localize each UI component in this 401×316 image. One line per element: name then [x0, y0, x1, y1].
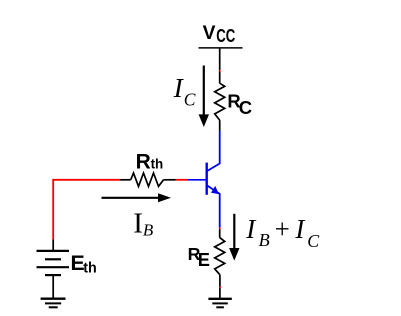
transistor Q1 collector lead [207, 130, 220, 171]
ground battery [41, 299, 66, 308]
wire battery to ground [52, 275, 54, 299]
current arrow IB plus IC [229, 214, 239, 261]
svg-text:R: R [136, 150, 151, 173]
wire battery top [52, 240, 54, 251]
transistor Q1 base bar [205, 163, 207, 195]
svg-text:+: + [273, 214, 291, 244]
svg-text:C: C [307, 231, 320, 251]
svg-text:V: V [203, 23, 216, 44]
svg-text:B: B [259, 230, 270, 250]
svg-text:I: I [133, 207, 143, 239]
wire thevenin red vertical [52, 179, 54, 240]
resistor RE [215, 238, 225, 275]
node VCC label [203, 23, 236, 46]
svg-text:C: C [239, 97, 252, 118]
label IB [133, 207, 154, 239]
current arrow IC [199, 66, 209, 128]
label Eth [71, 251, 97, 277]
label Rth [136, 150, 164, 173]
ground emitter [208, 299, 231, 308]
wire base red segment [176, 179, 188, 181]
power rail VCC [199, 47, 243, 49]
wire RC to collector [219, 120, 221, 131]
svg-text:C: C [184, 89, 196, 109]
resistor RC [215, 83, 225, 120]
wire VCC rail to RC [219, 48, 221, 84]
wire Rth left lead [120, 179, 131, 181]
label IB plus IC [245, 214, 320, 251]
wire thevenin red horizontal [52, 179, 120, 181]
junction dot red on collector feed [219, 70, 221, 72]
junction dot red on RE ground wire [219, 286, 221, 288]
wire emitter to RE [219, 229, 221, 238]
svg-text:th: th [151, 157, 164, 172]
svg-text:CC: CC [216, 26, 235, 46]
transistor Q1 emitter lead with arrow [207, 185, 220, 227]
label IC [173, 72, 196, 110]
wire RE to ground [219, 275, 221, 299]
battery Eth [37, 251, 70, 275]
svg-text:th: th [83, 261, 97, 277]
label RC [227, 91, 252, 118]
resistor Rth [131, 173, 164, 186]
label RE [188, 244, 210, 270]
wire base blue segment [187, 179, 206, 181]
svg-text:E: E [198, 249, 210, 270]
svg-text:B: B [143, 220, 154, 239]
wire Rth right lead [164, 179, 176, 181]
current arrow IB [102, 193, 172, 202]
junction dot red on emitter [219, 228, 221, 230]
